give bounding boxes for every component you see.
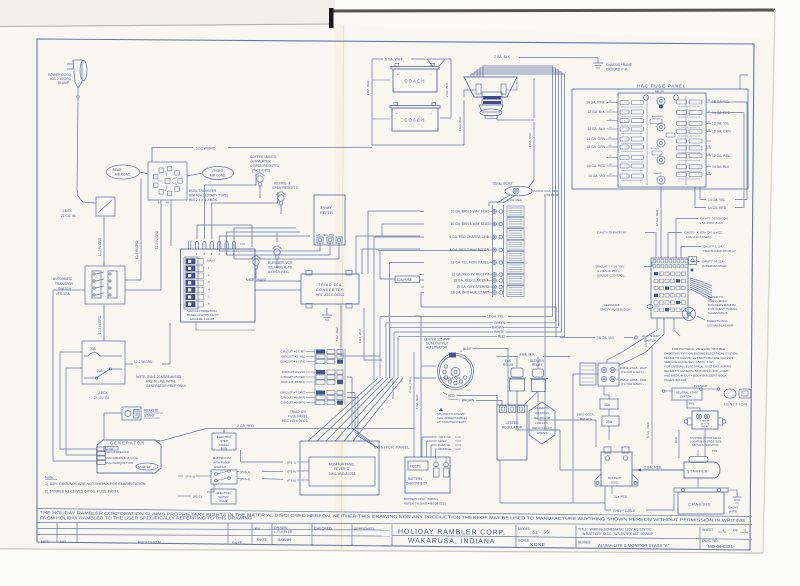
svg-text:GENERATOR: GENERATOR xyxy=(110,441,145,446)
svg-text:& CRANK 25A.-: & CRANK 25A.- xyxy=(597,269,619,273)
svg-text:DISCONNECT: DISCONNECT xyxy=(406,482,427,486)
svg-text:AUTOMATIC: AUTOMATIC xyxy=(53,277,73,281)
svg-text:CHASSIS: CHASSIS xyxy=(688,502,711,507)
svg-text:ORANGE: ORANGE xyxy=(438,447,451,451)
svg-text:HRC #15 6 04161: HRC #15 6 04161 xyxy=(316,293,345,297)
svg-text:(P3-6): (P3-6) xyxy=(287,479,296,483)
svg-text:GRN. NEG. POS.: GRN. NEG. POS. xyxy=(316,234,335,237)
svg-text:SIGNAL FLASHER: SIGNAL FLASHER xyxy=(707,324,734,328)
svg-text:CIRCUIT BREAKER: CIRCUIT BREAKER xyxy=(105,450,129,454)
svg-text:PPL: PPL xyxy=(689,402,695,406)
svg-text:1: 1 xyxy=(744,529,746,533)
svg-text:CIRCUIT #8-BRN: CIRCUIT #8-BRN xyxy=(281,396,305,400)
svg-text:LESTEK: LESTEK xyxy=(506,421,519,425)
svg-text:REFER TO DWG.#M0-08-0221: REFER TO DWG.#M0-08-0221 xyxy=(404,502,446,506)
svg-text:30 AMP: 30 AMP xyxy=(57,81,69,85)
svg-text:2 GA. RED: 2 GA. RED xyxy=(237,424,254,428)
svg-text:8 GA. WHT: 8 GA. WHT xyxy=(385,58,402,62)
svg-text:WTR PUMP: WTR PUMP xyxy=(213,461,230,465)
svg-text:31'- 35': 31'- 35' xyxy=(532,530,551,535)
svg-text:18 GA. BRN AUX. START: 18 GA. BRN AUX. START xyxy=(451,291,489,295)
svg-text:BLENDER, VCR,: BLENDER, VCR, xyxy=(268,261,293,265)
svg-text:DATE: DATE xyxy=(232,540,243,545)
svg-text:FRIG-COOL: FRIG-COOL xyxy=(577,413,594,417)
svg-text:(FLOOR HARN.): (FLOOR HARN.) xyxy=(621,382,644,386)
svg-text:CHEVY CABLE: CHEVY CABLE xyxy=(613,509,635,513)
svg-text:25A: 25A xyxy=(606,420,613,424)
svg-text:BOX: BOX xyxy=(221,447,227,451)
svg-text:2 GA. RED: 2 GA. RED xyxy=(458,116,462,132)
svg-text:14 GA. YEL: 14 GA. YEL xyxy=(708,198,726,202)
svg-text:NOTE: 30A & 20A BREAKERS: NOTE: 30A & 20A BREAKERS xyxy=(136,375,182,379)
svg-text:8 GA. RED: 8 GA. RED xyxy=(507,198,523,202)
svg-text:RELAYS: RELAYS xyxy=(580,417,592,421)
svg-text:18 GA. YEL: 18 GA. YEL xyxy=(487,315,504,319)
svg-text:SHOOTING TIPS ON ENGINE ELECTR: SHOOTING TIPS ON ENGINE ELECTRICAL SYSTE… xyxy=(664,351,738,355)
svg-text:12-2 W/GRD: 12-2 W/GRD xyxy=(155,230,159,249)
svg-text:30A: 30A xyxy=(90,347,97,351)
svg-text:TERM. POST: TERM. POST xyxy=(492,182,513,186)
svg-text:STARTER: STARTER xyxy=(700,420,710,423)
svg-text:4 GA. BLK: 4 GA. BLK xyxy=(519,353,535,357)
svg-text:BROWN: BROWN xyxy=(492,325,505,329)
svg-text:FROM HOLIDAY RAMBLER TO TH: FROM HOLIDAY RAMBLER TO THE USER SPECIFI… xyxy=(40,516,252,521)
svg-text:BATTERY: BATTERY xyxy=(608,476,622,480)
svg-text:-: - xyxy=(431,111,432,115)
svg-text:REVER 'O': REVER 'O' xyxy=(334,467,350,471)
svg-text:FRONT: FRONT xyxy=(213,169,224,173)
svg-text:REFER: REFER xyxy=(320,211,333,215)
svg-text:CHASSIS FRAME: CHASSIS FRAME xyxy=(606,63,632,67)
svg-text:6 GA. RED: 6 GA. RED xyxy=(335,326,339,342)
svg-text:NONE: NONE xyxy=(530,542,545,547)
svg-text:SWITCH: SWITCH xyxy=(680,395,691,399)
svg-text:2ga. RED: 2ga. RED xyxy=(614,495,628,499)
svg-text:SWITCH: SWITCH xyxy=(58,287,72,291)
svg-text:CIRCUIT #7-ORG: CIRCUIT #7-ORG xyxy=(280,391,305,395)
svg-text:(P3-1): (P3-1) xyxy=(287,461,296,465)
svg-text:CIRCUIT #1-GRY: CIRCUIT #1-GRY xyxy=(281,350,305,354)
svg-text:SHEET: SHEET xyxy=(702,528,715,532)
svg-text:RELAY: RELAY xyxy=(532,363,543,367)
svg-text:AND MEDIUM DUTY BODY BUILDERS: AND MEDIUM DUTY BODY BUILDERS BOOK xyxy=(664,373,727,377)
svg-text:& OPEN REC.: & OPEN REC. xyxy=(268,270,289,274)
svg-text:BATHROOM: BATHROOM xyxy=(213,456,231,460)
svg-text:2 GA. RED: 2 GA. RED xyxy=(528,132,532,148)
svg-text:18 GA. VIO: 18 GA. VIO xyxy=(597,336,614,340)
svg-text:DUAL TRANSFER: DUAL TRANSFER xyxy=(189,189,217,193)
svg-text:GENERATOR PREP ONLY.: GENERATOR PREP ONLY. xyxy=(146,384,187,388)
svg-text:10-2 W/GRD: 10-2 W/GRD xyxy=(98,315,102,334)
svg-text:WIPER/WASHER: WIPER/WASHER xyxy=(702,264,727,268)
svg-text:MOTOR: MOTOR xyxy=(701,423,710,425)
svg-text:ONAN EMERALD 15 6.3 GE: ONAN EMERALD 15 6.3 GE xyxy=(105,456,138,460)
svg-text:(FLOOR HARN.): (FLOOR HARN.) xyxy=(621,370,644,374)
svg-text:CAVITY 'B' BATTERY: CAVITY 'B' BATTERY xyxy=(597,231,627,235)
svg-text:VOLTS: VOLTS xyxy=(410,465,421,469)
svg-text:DWG. NO.: DWG. NO. xyxy=(702,539,719,543)
svg-text:12 GA. P/BL: 12 GA. P/BL xyxy=(712,154,730,158)
svg-text:W/BATTERY DISC., W/LESTEK A: W/BATTERY DISC., W/LESTEK ALT. 50/AMP xyxy=(582,532,654,536)
svg-text:CIRCUIT #3-GRN: CIRCUIT #3-GRN xyxy=(280,360,305,364)
svg-text:OPEN RECEPTS: OPEN RECEPTS xyxy=(272,186,299,190)
svg-text:-: - xyxy=(430,72,431,76)
svg-text:BATTERY DISC. WIRING: BATTERY DISC. WIRING xyxy=(404,497,439,501)
svg-text:18 GA. RED LEAK DET.: 18 GA. RED LEAK DET. xyxy=(453,279,489,283)
svg-text:TITLE: WIRING SCHEMATIC 110: TITLE: WIRING SCHEMATIC 110V AC/12V DC xyxy=(578,528,652,532)
svg-text:4 GA. RED: 4 GA. RED xyxy=(415,394,419,410)
svg-text:12-2 W/GRD: 12-2 W/GRD xyxy=(196,147,216,151)
svg-text:ALTERNATOR: ALTERNATOR xyxy=(439,377,461,381)
svg-text:6.5 KW: 6.5 KW xyxy=(105,446,114,450)
svg-text:LOCATED ON PASS. SIDE: LOCATED ON PASS. SIDE xyxy=(690,440,722,444)
svg-text:REFER TO: REFER TO xyxy=(535,406,550,410)
svg-text:(P5-1): (P5-1) xyxy=(193,495,202,499)
svg-text:CONVERTER: CONVERTER xyxy=(250,160,271,164)
svg-text:21 CU. IN.: 21 CU. IN. xyxy=(94,396,109,400)
svg-text:GREEN: GREEN xyxy=(494,321,506,325)
svg-text:AT STARTER RELAY: AT STARTER RELAY xyxy=(437,420,466,424)
svg-text:REVISION: REVISION xyxy=(138,540,161,545)
svg-text:HRC #15 6 04173: HRC #15 6 04173 xyxy=(282,419,308,423)
svg-text:MO-08-0304: MO-08-0304 xyxy=(708,544,733,549)
svg-text:NO.: NO. xyxy=(60,539,67,544)
svg-text:14 GA. BLU: 14 GA. BLU xyxy=(587,127,605,131)
svg-text:(INCL. DP1): (INCL. DP1) xyxy=(252,169,270,173)
svg-text:& OPEN RECEPTS: & OPEN RECEPTS xyxy=(250,164,280,168)
svg-text:18 GA. (GN. 24): 18 GA. (GN. 24) xyxy=(391,380,395,399)
svg-text:ALTERNATOR: ALTERNATOR xyxy=(426,346,448,350)
svg-text:CHECKED: CHECKED xyxy=(314,527,332,531)
svg-text:22 GA. BLK: 22 GA. BLK xyxy=(588,110,606,114)
svg-text:REFER TO GENERAL MOTORS CORP.,: REFER TO GENERAL MOTORS CORP., LIGHT xyxy=(664,369,729,373)
svg-text:1) 110V. GROUNDS ARE NOT SHOWN: 1) 110V. GROUNDS ARE NOT SHOWN FOR CLARI… xyxy=(45,482,146,486)
svg-text:FOR PICTORIAL VIEW AND TROUBLE: FOR PICTORIAL VIEW AND TROUBLE xyxy=(672,347,725,351)
svg-text:2 GA. BLK: 2 GA. BLK xyxy=(494,55,511,59)
svg-text:BLUE: BLUE xyxy=(463,347,471,351)
svg-text:REFRIG. &: REFRIG. & xyxy=(274,182,291,186)
svg-text:14 GA. BLK: 14 GA. BLK xyxy=(712,165,730,169)
svg-text:W/4 2 4 X 4 J-BOX: W/4 2 4 X 4 J-BOX xyxy=(189,198,218,202)
svg-text:12-2 W/GRD: 12-2 W/GRD xyxy=(134,360,153,364)
svg-text:AIR COND.: AIR COND. xyxy=(115,173,132,177)
svg-text:12 GA. RED TV RECEPT: 12 GA. RED TV RECEPT xyxy=(452,273,490,277)
svg-text:STARTER: STARTER xyxy=(138,465,151,469)
svg-text:2 GA., RED: 2 GA., RED xyxy=(644,466,662,470)
svg-text:TRANSFER: TRANSFER xyxy=(55,282,73,286)
svg-text:SWITCH: SWITCH xyxy=(214,465,226,469)
svg-text:COFFEE MAKER,: COFFEE MAKER, xyxy=(250,155,277,159)
svg-text:WIRING: WIRING xyxy=(537,431,549,435)
svg-text:ONAN MARQUIS 7.0FB: ONAN MARQUIS 7.0FB xyxy=(105,461,133,465)
svg-text:Note:: Note: xyxy=(45,476,54,480)
svg-text:SCALE:: SCALE: xyxy=(518,539,530,543)
svg-text:20A: 20A xyxy=(97,369,104,373)
svg-text:STARTER MOTOR RELAY: STARTER MOTOR RELAY xyxy=(690,436,721,440)
svg-text:10A.-(NOT USED): 10A.-(NOT USED) xyxy=(686,235,711,239)
svg-text:2 GA. BLK: 2 GA. BLK xyxy=(445,83,449,97)
svg-text:8 GA. RED 3-WAY REFER: 8 GA. RED 3-WAY REFER xyxy=(450,248,490,252)
svg-text:14 GA. GRN: 14 GA. GRN xyxy=(586,137,605,141)
svg-text:DWG. #M0-8-0218: DWG. #M0-8-0218 xyxy=(329,472,356,476)
svg-text:30A: 30A xyxy=(604,403,611,407)
svg-text:MO-08-0238: MO-08-0238 xyxy=(534,416,551,420)
svg-text:FOR OVERALL ELECTRICAL SYSTEMS: FOR OVERALL ELECTRICAL SYSTEMS WIRING xyxy=(664,365,732,369)
svg-text:WAKARUSA, INDIANA: WAKARUSA, INDIANA xyxy=(408,538,495,546)
svg-text:1: 1 xyxy=(722,528,724,532)
svg-text:ALUMA-LITE & MONITOR CLASS: ALUMA-LITE & MONITOR CLASS "A" xyxy=(598,543,670,548)
svg-text:SERIES:: SERIES: xyxy=(578,541,591,545)
svg-text:TRANS INDICATOR LP: TRANS INDICATOR LP xyxy=(703,249,736,253)
svg-text:RELAY: RELAY xyxy=(503,363,514,367)
svg-text:DRAWING: DRAWING xyxy=(535,411,550,415)
svg-text:DIRECTIONAL: DIRECTIONAL xyxy=(707,319,728,323)
svg-text:ICE MAKER, TV: ICE MAKER, TV xyxy=(268,266,293,270)
svg-text:HRC FUSE PANEL: HRC FUSE PANEL xyxy=(637,84,686,89)
svg-text:APPROVED: APPROVED xyxy=(354,527,374,531)
svg-text:MICROWAVE: MICROWAVE xyxy=(246,278,267,282)
svg-text:IGNITION: IGNITION xyxy=(724,403,748,407)
svg-text:12A FUSE: 12A FUSE xyxy=(397,278,412,282)
svg-text:STARTER: STARTER xyxy=(687,470,708,474)
svg-text:PAGES 308-318.: PAGES 308-318. xyxy=(664,378,687,382)
svg-text:AMPLIFIER: AMPLIFIER xyxy=(652,115,663,118)
svg-text:(P16-1): (P16-1) xyxy=(240,470,250,474)
svg-text:.21 CU. IN.: .21 CU. IN. xyxy=(60,214,76,218)
svg-text:J-BOX: J-BOX xyxy=(62,209,73,213)
svg-text:CIRCUIT #6-BLU: CIRCUIT #6-BLU xyxy=(281,380,305,384)
svg-text:OF: OF xyxy=(733,528,738,532)
svg-text:18 GA. GRY STEREO: 18 GA. GRY STEREO xyxy=(456,285,489,289)
svg-text:8 GA., RED: 8 GA., RED xyxy=(646,421,650,438)
svg-text:ARE IN LINE WITH: ARE IN LINE WITH xyxy=(146,380,175,384)
svg-text:BROWN: BROWN xyxy=(462,399,475,403)
svg-text:SWITCH (ROTARY TYPE): SWITCH (ROTARY TYPE) xyxy=(189,194,228,198)
svg-text:COACH: COACH xyxy=(404,118,425,123)
svg-text:(P3-8): (P3-8) xyxy=(287,470,296,474)
svg-text:12-2 W/GRD: 12-2 W/GRD xyxy=(98,237,102,256)
svg-text:FOR 130L.: FOR 130L. xyxy=(535,421,549,425)
svg-text:BY: BY xyxy=(255,526,261,531)
svg-text:+: + xyxy=(396,111,398,115)
svg-text:CIRCUIT 'I' IGN. 'ON': CIRCUIT 'I' IGN. 'ON' xyxy=(595,265,625,269)
svg-text:TRIAD 50A: TRIAD 50A xyxy=(318,283,342,287)
svg-text:#TS-30 A: #TS-30 A xyxy=(56,292,71,296)
svg-text:RED: RED xyxy=(498,335,505,339)
svg-text:SERVICE GUIDE SEC. 15(PG. 7-42: SERVICE GUIDE SEC. 15(PG. 7-42) xyxy=(664,360,713,364)
svg-text:CONVERTER: CONVERTER xyxy=(316,288,344,292)
svg-text:AIR COND.: AIR COND. xyxy=(210,174,227,178)
svg-text:2) 3-WIRES RECEIVES 6-POS. FUS: 2) 3-WIRES RECEIVES 6-POS. FUSE PANEL xyxy=(45,490,119,494)
svg-text:WIRE: WIRE xyxy=(729,510,737,514)
svg-text:CAVITY 'N' IGN 'ON': CAVITY 'N' IGN 'ON' xyxy=(700,217,729,221)
svg-text:(P16-2): (P16-2) xyxy=(240,477,250,481)
svg-text:DISC.: DISC. xyxy=(611,481,619,485)
svg-text:12 GA. YEL: 12 GA. YEL xyxy=(712,122,730,126)
svg-text:10 GA. BRN 6-WAY SEAT: 10 GA. BRN 6-WAY SEAT xyxy=(451,222,489,226)
svg-text:+: + xyxy=(397,72,399,76)
svg-text:REGULATOR: REGULATOR xyxy=(502,426,523,430)
svg-text:HRC# 9E 1 02108: HRC# 9E 1 02108 xyxy=(190,317,215,321)
svg-text:6 GA. RED CHARGE LINE: 6 GA. RED CHARGE LINE xyxy=(449,235,489,239)
svg-text:REFER TO CHEVROLET MOTORHOME C: REFER TO CHEVROLET MOTORHOME CHASSIS xyxy=(664,356,733,360)
svg-text:14 GA. RED: 14 GA. RED xyxy=(708,206,727,210)
svg-text:CIRCUIT #5-RED: CIRCUIT #5-RED xyxy=(281,375,306,379)
svg-text:MODEL:: MODEL: xyxy=(518,527,531,531)
svg-text:2 GA., RED: 2 GA., RED xyxy=(408,376,412,393)
svg-text:CHEVY FUSEBLOCK: CHEVY FUSEBLOCK xyxy=(600,308,631,312)
svg-text:TILT WHL: TILT WHL xyxy=(650,148,660,150)
svg-text:CAVITY 'H' 25A.-: CAVITY 'H' 25A.- xyxy=(702,260,725,264)
svg-text:(P 8-3): (P 8-3) xyxy=(186,475,195,479)
svg-text:MONITOR PANEL: MONITOR PANEL xyxy=(329,463,355,467)
svg-text:4 GA. WHT: 4 GA. WHT xyxy=(358,328,362,344)
svg-text:MAIN: MAIN xyxy=(207,259,215,263)
svg-text:#12034308: #12034308 xyxy=(604,303,620,307)
svg-text:SCHEMATICS: SCHEMATICS xyxy=(708,311,727,315)
svg-text:PUMP: PUMP xyxy=(219,499,227,503)
svg-text:MASTER: MASTER xyxy=(655,90,665,93)
svg-text:DATE: DATE xyxy=(257,537,268,542)
svg-text:COACH: COACH xyxy=(404,79,425,84)
svg-text:REAR: REAR xyxy=(113,168,123,172)
svg-text:TRAILER: TRAILER xyxy=(653,172,662,175)
svg-text:18 GA. GRN: 18 GA. GRN xyxy=(586,145,605,149)
svg-text:25A.-HTR. & A/C: 25A.-HTR. & A/C xyxy=(700,221,724,225)
svg-text:10 GA. BRN 6-WAY SEAT: 10 GA. BRN 6-WAY SEAT xyxy=(451,210,489,214)
svg-text:WTR PUMP: WTR PUMP xyxy=(544,193,559,197)
svg-text:2 GA. RED: 2 GA. RED xyxy=(366,80,370,96)
svg-text:CIRCUIT #4-VIO: CIRCUIT #4-VIO xyxy=(282,370,306,374)
svg-text:10-2 W/GRD: 10-2 W/GRD xyxy=(135,240,139,259)
svg-text:BATTERY: BATTERY xyxy=(408,477,423,481)
svg-text:L.T.LEPLER: L.T.LEPLER xyxy=(274,530,293,534)
svg-text:CAVITY 'A' IGN-'ON' & ACC: CAVITY 'A' IGN-'ON' & ACC xyxy=(684,231,723,235)
svg-text:FUSE PANEL: FUSE PANEL xyxy=(288,415,308,419)
svg-text:TRIAD 12V.: TRIAD 12V. xyxy=(290,410,307,414)
svg-text:LET.: LET. xyxy=(41,539,49,544)
svg-text:3-WAY: 3-WAY xyxy=(320,206,332,210)
svg-text:CIRCUIT #9-BRN: CIRCUIT #9-BRN xyxy=(281,401,305,405)
svg-text:12 GA. RED: 12 GA. RED xyxy=(655,209,659,226)
svg-text:14 GA. VIO: 14 GA. VIO xyxy=(588,174,605,178)
svg-text:HOLIDAY RAMBLER CORP.: HOLIDAY RAMBLER CORP. xyxy=(398,529,506,537)
svg-text:RED: RED xyxy=(448,394,455,398)
svg-text:CRUISE CONTROL: CRUISE CONTROL xyxy=(597,274,625,278)
svg-text:WHITE: WHITE xyxy=(494,330,504,334)
svg-text:8/08/89: 8/08/89 xyxy=(278,537,292,542)
svg-text:CAVITY 'L' 5A.-: CAVITY 'L' 5A.- xyxy=(703,245,724,249)
svg-text:18 GA. GRN: 18 GA. GRN xyxy=(712,130,731,134)
svg-text:GROUND TYP.: GROUND TYP. xyxy=(606,68,628,72)
svg-text:CIRCUIT #2-YEL: CIRCUIT #2-YEL xyxy=(281,355,305,359)
svg-text:RELAY DELAY: RELAY DELAY xyxy=(532,426,551,430)
svg-text:12 GA. YEL MON. PANEL: 12 GA. YEL MON. PANEL xyxy=(451,261,489,265)
svg-text:14 GA. PINK: 14 GA. PINK xyxy=(586,101,606,105)
svg-text:16 GA. RED: 16 GA. RED xyxy=(587,164,606,168)
svg-text:RED: RED xyxy=(674,437,678,443)
svg-text:START: START xyxy=(144,414,155,418)
svg-text:RELAY: RELAY xyxy=(701,425,709,428)
svg-text:PPL: PPL xyxy=(712,449,718,453)
svg-text:J-BOX: J-BOX xyxy=(98,391,109,395)
svg-text:REMOTE: REMOTE xyxy=(144,409,159,413)
